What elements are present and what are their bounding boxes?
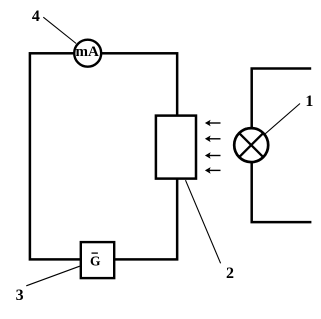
lamp 1 <box>234 128 268 162</box>
svg-text:1: 1 <box>305 93 313 110</box>
leader line to label 2 <box>186 180 221 263</box>
light ray arrow 2 <box>205 136 221 143</box>
svg-text:mA: mA <box>76 44 99 60</box>
light ray arrow 3 <box>205 152 221 159</box>
photocell 2 <box>156 116 196 179</box>
source G (3) <box>81 242 114 278</box>
leader line to label 3 <box>26 266 79 286</box>
svg-text:G: G <box>90 254 101 269</box>
light ray arrow 4 <box>205 167 221 174</box>
svg-text:4: 4 <box>32 8 40 25</box>
wire right lamp loop <box>252 69 312 223</box>
light ray arrow 1 <box>205 120 221 127</box>
svg-text:2: 2 <box>226 265 234 282</box>
milliammeter mA (4) <box>74 40 101 67</box>
svg-text:3: 3 <box>16 287 24 304</box>
leader line to label 1 <box>265 104 300 135</box>
wire left measuring loop <box>30 53 177 259</box>
leader line to label 4 <box>43 17 76 43</box>
